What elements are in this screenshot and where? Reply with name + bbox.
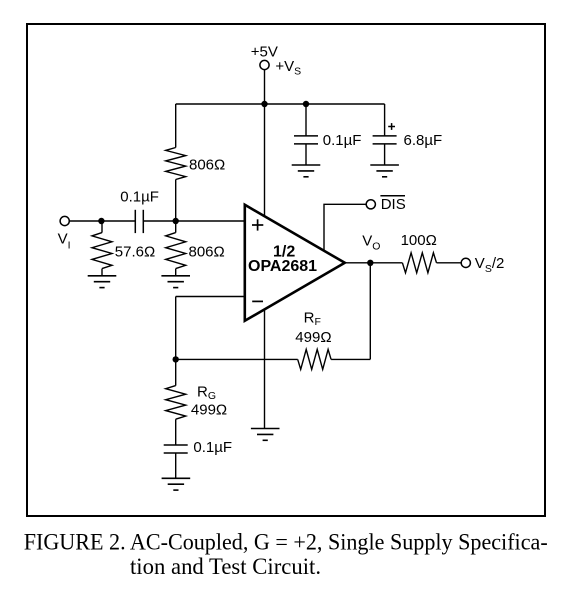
svg-text:0.1µF: 0.1µF (323, 132, 362, 149)
svg-text:DIS: DIS (381, 196, 406, 213)
svg-text:+5V: +5V (251, 43, 278, 60)
svg-text:0.1µF: 0.1µF (193, 439, 232, 456)
svg-text:0.1µF: 0.1µF (120, 188, 159, 205)
svg-text:tion and Test Circuit.: tion and Test Circuit. (130, 554, 321, 579)
svg-text:806Ω: 806Ω (189, 156, 225, 173)
svg-text:6.8µF: 6.8µF (404, 132, 443, 149)
svg-text:499Ω: 499Ω (191, 401, 227, 418)
svg-text:OPA2681: OPA2681 (248, 258, 317, 275)
svg-text:806Ω: 806Ω (189, 244, 225, 261)
svg-text:FIGURE 2. AC-Coupled, G = +2,: FIGURE 2. AC-Coupled, G = +2, Single Sup… (24, 530, 548, 555)
svg-text:499Ω: 499Ω (295, 329, 331, 346)
svg-text:100Ω: 100Ω (401, 232, 437, 249)
svg-text:57.6Ω: 57.6Ω (115, 244, 155, 261)
